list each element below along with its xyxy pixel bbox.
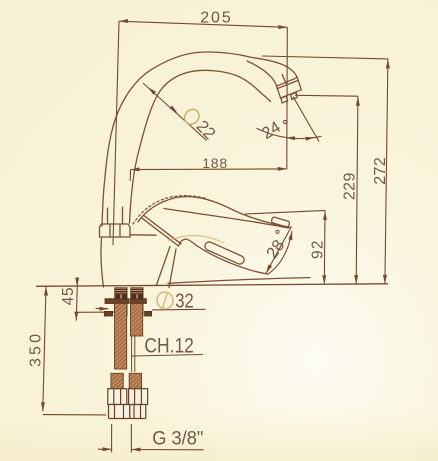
24 degree arm <box>293 97 319 142</box>
cap top edge line <box>130 234 156 236</box>
24 degree arc <box>257 128 322 138</box>
surface line <box>36 284 388 287</box>
24 degree dot <box>283 120 286 123</box>
dim line 92 vertical <box>323 210 326 284</box>
350 lower extension <box>43 414 106 416</box>
tick below 188 left end <box>129 170 131 181</box>
svg-text:32: 32 <box>175 291 194 313</box>
aerator <box>277 78 302 99</box>
shank nut eyes <box>115 295 142 302</box>
28 degree leg <box>266 227 292 274</box>
handle underside lens <box>204 241 246 266</box>
spout tip seam <box>247 61 277 86</box>
arrow 229 bottom <box>354 275 358 284</box>
spout tip joint stroke <box>282 75 286 84</box>
arrow 272 bottom <box>383 275 387 284</box>
dim line 205 <box>119 21 287 27</box>
body base edge <box>168 278 310 284</box>
label 24 <box>259 118 284 143</box>
svg-text:350: 350 <box>28 334 45 367</box>
arrow 24 arc right <box>306 137 315 141</box>
arrow G38 left <box>103 447 112 451</box>
handle front edge double line <box>142 216 181 246</box>
label 45 <box>60 287 77 305</box>
272 extension line <box>262 56 388 59</box>
arrow 350 top <box>44 287 48 296</box>
arrow 45 bottom <box>74 312 78 321</box>
arrow 24 arc left <box>286 136 295 140</box>
arrow 28 leg <box>266 264 272 273</box>
45 lower extension <box>77 311 115 313</box>
45 leader <box>96 307 109 309</box>
dim line 229 vertical <box>356 96 358 284</box>
arrow 45 leader <box>100 307 109 311</box>
svg-text:205: 205 <box>200 9 231 26</box>
label d22 <box>193 117 220 144</box>
arrow 92 top <box>323 211 327 220</box>
tube inner lines above nut <box>108 207 123 224</box>
svg-text:45: 45 <box>60 287 77 305</box>
Ø22 indicator line <box>143 83 207 140</box>
arrow d22 lower <box>170 106 178 114</box>
label 92 <box>309 241 326 259</box>
label 28 <box>263 237 288 262</box>
label 272 <box>372 157 389 185</box>
supply pipe right lower <box>129 373 141 389</box>
handle top edge <box>138 197 291 228</box>
supply pipe left upper <box>115 304 127 370</box>
supply pipe left lower <box>111 373 123 389</box>
CH.12 leader and underline <box>131 355 203 357</box>
supply pipe right upper <box>131 304 143 337</box>
handle inner top line <box>164 209 289 229</box>
Ø32 underline <box>152 308 206 311</box>
arrow 28 arc top <box>288 231 292 240</box>
92 extension line <box>245 210 325 214</box>
threaded shank cluster <box>115 288 143 316</box>
G38 extension lines <box>112 424 132 453</box>
arrow 92 bottom <box>322 275 326 284</box>
arrow 188 right <box>278 167 287 171</box>
arrow 205 left <box>119 19 128 23</box>
arrow 229 top <box>356 97 360 106</box>
28 degree dot <box>276 230 279 233</box>
label 229 <box>341 173 358 201</box>
28 degree arc <box>268 231 293 275</box>
axis line spout tip <box>286 27 289 169</box>
aerator foot right <box>291 93 298 100</box>
arrow 45 top <box>75 278 79 286</box>
arrow d22 upper <box>148 87 156 95</box>
arrow 205 right <box>278 25 287 29</box>
dim line 188 <box>131 168 287 171</box>
body column left edge <box>101 238 104 287</box>
hex nut right <box>130 405 146 419</box>
spout nut facets <box>110 225 120 237</box>
svg-text:229: 229 <box>341 173 358 201</box>
compression fitting left <box>108 389 148 419</box>
spout nut <box>100 224 131 237</box>
arrow 188 left <box>131 167 140 171</box>
body neck right edge <box>169 249 176 288</box>
aerator cut line <box>277 80 298 88</box>
label 350 <box>28 334 45 367</box>
handle dotted rear edge <box>133 196 206 224</box>
body cap peak and handle bottom edge <box>179 239 268 274</box>
svg-text:272: 272 <box>372 157 389 185</box>
229 extension line <box>295 94 358 97</box>
G38 dim line left <box>98 448 112 450</box>
shank thread hatching <box>115 290 143 294</box>
dim 350 vertical <box>43 286 46 411</box>
dim 45 vertical <box>76 278 77 321</box>
body neck left edge <box>157 247 171 286</box>
svg-text:G 3/8": G 3/8" <box>152 428 203 449</box>
d32 circle symbol <box>155 290 175 311</box>
shank washers <box>104 299 151 316</box>
ext line left of 205 <box>113 21 119 245</box>
svg-text:92: 92 <box>309 241 326 259</box>
spout outer curve <box>102 52 297 226</box>
G38 dim line right <box>131 449 203 451</box>
spout inner curve <box>130 70 271 223</box>
aerator foot left <box>281 96 288 103</box>
hex nut left <box>109 405 130 419</box>
compression fitting right <box>129 389 148 405</box>
svg-text:CH.12: CH.12 <box>144 335 194 358</box>
svg-text:188: 188 <box>202 155 227 171</box>
dim line 272 vertical <box>385 59 388 284</box>
arrow 272 top <box>386 59 390 68</box>
arrow G38 right <box>131 448 140 452</box>
faint pencil highlight in cap <box>168 235 224 243</box>
pipe tail right thin <box>132 336 135 372</box>
handle tip tab <box>271 217 290 228</box>
arrow 350 bottom <box>41 402 45 411</box>
d22 circle symbol <box>182 106 202 127</box>
